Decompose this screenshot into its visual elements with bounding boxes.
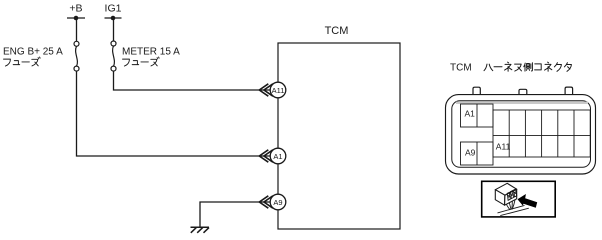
connector cell group A9	[461, 142, 494, 165]
power symbol IG1	[105, 17, 122, 19]
icon box	[482, 181, 556, 217]
connector cell group A1	[461, 104, 494, 127]
TCM box	[278, 43, 400, 229]
fuse METER 15 A	[111, 41, 116, 71]
power symbol +B	[67, 17, 85, 19]
wire ENG fuse to A1	[77, 71, 271, 156]
wire +B to fuse	[76, 18, 78, 41]
svg-text:+B: +B	[69, 2, 82, 14]
terminal arrow A9	[259, 196, 273, 208]
terminal arrow A11	[259, 84, 273, 96]
connector inner outline	[452, 101, 591, 168]
connector tab right	[565, 87, 573, 95]
svg-text:A1: A1	[465, 108, 476, 118]
3D connector icon	[495, 183, 516, 205]
icon arrow	[518, 194, 538, 208]
wire IG1 to fuse	[113, 18, 115, 41]
connector tab middle	[519, 89, 527, 95]
connector outer outline	[446, 95, 596, 174]
svg-text:A9: A9	[465, 147, 476, 157]
svg-text:ENG B+ 25 A: ENG B+ 25 A	[3, 47, 63, 58]
svg-text:A11: A11	[496, 141, 511, 151]
svg-text:A1: A1	[273, 152, 282, 161]
fuse ENG B+ 25 A	[74, 41, 79, 71]
svg-text:A11: A11	[272, 86, 285, 95]
svg-text:A9: A9	[273, 198, 282, 207]
svg-text:IG1: IG1	[105, 2, 122, 14]
pin A11	[270, 82, 286, 98]
connector tab left	[473, 87, 480, 95]
svg-text:TCM: TCM	[325, 25, 349, 37]
wire A9 to ground	[200, 202, 270, 227]
icon wires	[498, 200, 529, 216]
pin A1	[270, 148, 286, 164]
connector top gray strip	[456, 102, 588, 104]
pin A9	[270, 194, 286, 210]
terminal arrow A1	[259, 150, 273, 162]
connector pin grid	[493, 110, 590, 157]
ground	[191, 227, 210, 233]
wire METER fuse to A11	[114, 71, 271, 90]
svg-text:TCM: TCM	[450, 63, 472, 74]
svg-text:METER 15 A: METER 15 A	[122, 47, 180, 58]
